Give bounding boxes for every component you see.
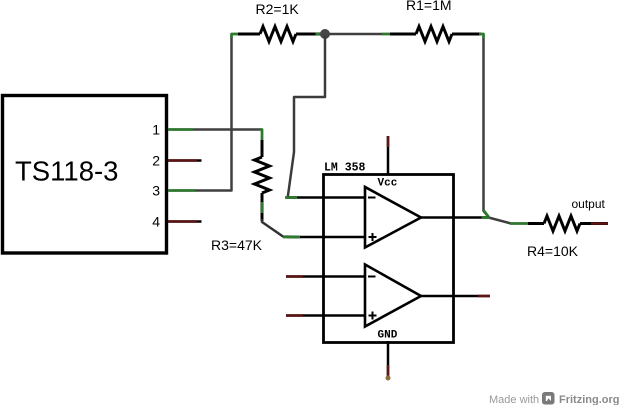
op-amp B triangle — [365, 265, 421, 327]
watermark Fritzing logo — [542, 392, 555, 405]
wire end (green) at op-amp A inverting input — [285, 196, 297, 199]
wire R2 left to pin3 — [168, 34, 240, 191]
op-amp U2 box — [324, 175, 454, 343]
svg-text:4: 4 — [152, 214, 160, 230]
wire node to op-amp inverting input — [285, 36, 325, 198]
op-amp B output pin — [421, 295, 490, 298]
svg-text:1: 1 — [152, 122, 160, 138]
svg-text:TS118-3: TS118-3 — [15, 156, 118, 187]
svg-text:R3=47K: R3=47K — [211, 237, 263, 253]
pin 4 stub (unconnected) — [168, 220, 202, 223]
wire pin1 to R3 top — [168, 130, 262, 143]
svg-text:Vcc: Vcc — [378, 178, 398, 190]
op-amp B non-inverting input pin — [286, 314, 365, 317]
op-amp B inverting input pin — [286, 275, 365, 278]
wire R1 right down to op-amp output junction — [479, 34, 489, 217]
svg-text:R4=10K: R4=10K — [527, 243, 579, 259]
op-amp A non-inverting input pin — [287, 236, 365, 239]
wire op-amp output to R4 — [482, 218, 529, 224]
wire end (green) at op-amp A output junction — [482, 216, 491, 219]
IC U1 TS118-3 body — [3, 96, 167, 254]
resistor R2 — [238, 27, 321, 42]
svg-text:Made with: Made with — [489, 394, 539, 405]
GND pin — [386, 341, 391, 381]
resistor R3 — [255, 140, 270, 221]
svg-text:Fritzing.org: Fritzing.org — [559, 394, 620, 405]
op-amp A triangle — [365, 187, 421, 248]
wire R3 bottom to op-amp non-inverting input — [262, 202, 299, 237]
wire end (green) at op-amp A non-inverting input — [283, 236, 300, 239]
svg-text:R1=1M: R1=1M — [406, 0, 452, 13]
svg-text:R2=1K: R2=1K — [256, 1, 300, 17]
node (junction dot) — [320, 29, 330, 39]
pin 2 stub (unconnected) — [168, 159, 202, 162]
svg-text:output: output — [572, 197, 606, 211]
svg-text:2: 2 — [152, 153, 160, 169]
svg-text:3: 3 — [152, 183, 160, 199]
op-amp A inverting input pin — [287, 196, 365, 199]
svg-text:GND: GND — [378, 330, 398, 342]
svg-text:LM 358: LM 358 — [324, 162, 366, 175]
resistor R4 — [528, 216, 608, 231]
wire node to R1 left — [316, 33, 392, 36]
op-amp A output pin — [421, 216, 489, 219]
resistor R1 — [390, 27, 481, 42]
Vcc pin — [387, 136, 390, 175]
